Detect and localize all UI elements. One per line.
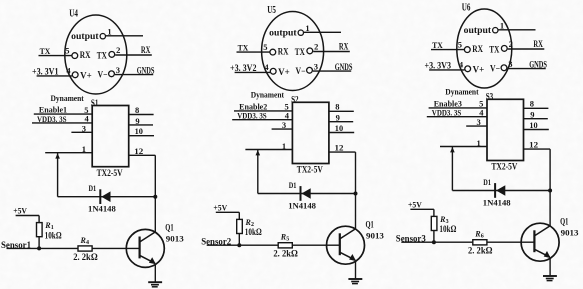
svg-text:1: 1 xyxy=(82,144,86,154)
svg-text:Q1: Q1 xyxy=(366,220,374,230)
svg-text:4: 4 xyxy=(86,240,89,246)
svg-text:TX: TX xyxy=(489,44,499,54)
svg-text:1: 1 xyxy=(477,138,481,148)
svg-text:1: 1 xyxy=(305,23,309,33)
svg-text:GNDS: GNDS xyxy=(137,66,155,76)
svg-text:TX2-5V: TX2-5V xyxy=(297,166,323,176)
svg-text:output: output xyxy=(71,31,99,41)
svg-text:5: 5 xyxy=(263,42,267,52)
svg-text:10kΩ: 10kΩ xyxy=(245,227,262,237)
svg-text:U4: U4 xyxy=(69,8,78,19)
svg-text:V+: V+ xyxy=(473,65,485,75)
svg-text:8: 8 xyxy=(530,99,534,109)
svg-text:3: 3 xyxy=(477,117,481,127)
svg-text:12: 12 xyxy=(529,140,538,150)
svg-text:1: 1 xyxy=(500,21,504,31)
svg-text:4: 4 xyxy=(459,60,464,70)
svg-text:RX: RX xyxy=(80,50,91,60)
svg-text:5: 5 xyxy=(458,39,462,49)
svg-text:12: 12 xyxy=(335,143,344,153)
svg-text:output: output xyxy=(464,25,492,35)
svg-text:10: 10 xyxy=(335,123,343,133)
svg-text:1N4148: 1N4148 xyxy=(88,204,116,214)
svg-text:+5V: +5V xyxy=(408,200,422,209)
svg-text:9013: 9013 xyxy=(366,231,384,241)
svg-text:D1: D1 xyxy=(89,183,97,193)
svg-text:RX: RX xyxy=(141,45,151,55)
svg-text:TX: TX xyxy=(238,43,249,53)
svg-text:Q1: Q1 xyxy=(560,217,568,227)
svg-text:10: 10 xyxy=(529,120,537,130)
svg-text:3: 3 xyxy=(508,59,512,69)
svg-text:Dynament: Dynament xyxy=(445,87,478,97)
svg-text:V−: V− xyxy=(98,70,108,80)
svg-text:2. 2kΩ: 2. 2kΩ xyxy=(273,249,298,259)
svg-text:2: 2 xyxy=(116,45,120,55)
svg-text:U5: U5 xyxy=(267,5,276,16)
svg-text:RX: RX xyxy=(339,42,349,52)
svg-text:Q1: Q1 xyxy=(165,224,173,234)
svg-text:4: 4 xyxy=(66,66,71,76)
svg-text:5: 5 xyxy=(286,237,289,243)
svg-text:V−: V− xyxy=(490,64,500,74)
svg-text:8: 8 xyxy=(135,105,139,115)
svg-text:4: 4 xyxy=(264,62,269,72)
svg-text:9013: 9013 xyxy=(166,234,184,244)
svg-text:1: 1 xyxy=(282,141,286,151)
svg-text:8: 8 xyxy=(335,102,339,112)
svg-text:10kΩ: 10kΩ xyxy=(439,224,456,234)
svg-text:GNDS: GNDS xyxy=(335,63,353,73)
svg-text:+3. 3V2: +3. 3V2 xyxy=(230,63,257,73)
svg-text:3: 3 xyxy=(82,123,86,133)
svg-text:1N4148: 1N4148 xyxy=(483,197,511,207)
svg-text:TX2-5V: TX2-5V xyxy=(97,169,123,179)
svg-text:Dynament: Dynament xyxy=(51,93,84,103)
svg-text:+5V: +5V xyxy=(13,207,27,216)
svg-text:3: 3 xyxy=(282,120,286,130)
svg-text:V+: V+ xyxy=(80,71,92,81)
svg-text:TX: TX xyxy=(432,40,443,50)
svg-text:2: 2 xyxy=(314,42,318,52)
svg-text:2: 2 xyxy=(509,39,513,49)
svg-text:+5V: +5V xyxy=(213,203,227,212)
svg-text:1N4148: 1N4148 xyxy=(288,200,316,210)
svg-text:Dynament: Dynament xyxy=(251,90,284,100)
svg-text:9013: 9013 xyxy=(561,228,579,238)
svg-text:10kΩ: 10kΩ xyxy=(45,230,62,240)
svg-text:TX: TX xyxy=(295,47,305,57)
svg-text:RX: RX xyxy=(533,39,543,49)
svg-text:+3. 3V1: +3. 3V1 xyxy=(32,66,59,76)
svg-text:RX: RX xyxy=(472,44,483,54)
svg-text:3: 3 xyxy=(116,65,120,75)
svg-text:2. 2kΩ: 2. 2kΩ xyxy=(73,252,98,262)
svg-text:TX2-5V: TX2-5V xyxy=(491,163,517,173)
svg-text:V−: V− xyxy=(296,66,306,76)
svg-text:1: 1 xyxy=(107,27,111,37)
svg-text:6: 6 xyxy=(481,234,484,240)
svg-text:V+: V+ xyxy=(278,67,290,77)
svg-text:D1: D1 xyxy=(289,180,297,190)
svg-text:12: 12 xyxy=(134,146,143,156)
svg-text:TX: TX xyxy=(40,46,51,56)
svg-text:D1: D1 xyxy=(483,177,491,187)
svg-text:output: output xyxy=(269,27,297,37)
svg-text:TX: TX xyxy=(97,50,107,60)
svg-text:2. 2kΩ: 2. 2kΩ xyxy=(468,246,493,256)
svg-text:10: 10 xyxy=(135,126,143,136)
svg-text:GNDS: GNDS xyxy=(529,60,547,70)
svg-text:3: 3 xyxy=(314,62,318,72)
svg-text:U6: U6 xyxy=(462,2,471,13)
svg-text:RX: RX xyxy=(278,47,289,57)
svg-text:+3. 3V3: +3. 3V3 xyxy=(425,60,452,70)
svg-text:5: 5 xyxy=(65,45,69,55)
